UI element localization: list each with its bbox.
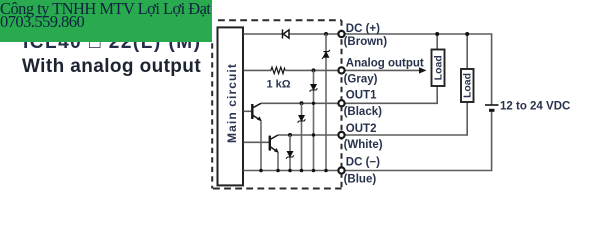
heading: With analog output [22, 56, 201, 78]
wire OUT1 external up to Load1 [345, 86, 437, 103]
vertical wire: analog zener column [313, 70, 315, 170]
svg-text:DC (−): DC (−) [346, 157, 380, 169]
svg-text:OUT2: OUT2 [346, 123, 377, 135]
junction node OUT2 / analog column crossing [312, 133, 315, 136]
load resistor Load1 [432, 50, 445, 87]
vertical wire: OUT1 zener column [301, 103, 303, 170]
resistor R1 1 kOhm zigzag [271, 67, 285, 73]
transistor Q1 emitter vertical wire [260, 121, 262, 171]
wire DC- internal [244, 170, 339, 172]
green company overlay box [0, 0, 212, 42]
wire DC+ external [345, 34, 492, 105]
terminal OUT1 [338, 100, 344, 106]
zener diode ZD4 (OUT2) [286, 152, 294, 159]
transistor Q2 (NPN, OUT2) [270, 135, 279, 153]
vertical wire: DC+ protection zener column [325, 34, 327, 171]
svg-text:(Brown): (Brown) [344, 36, 388, 48]
svg-text:12 to 24 VDC: 12 to 24 VDC [500, 100, 570, 112]
Load1 top connector [436, 34, 438, 50]
junction node OUT1 / analog column crossing [312, 102, 315, 105]
svg-text:Load: Load [433, 55, 445, 80]
svg-text:1 kΩ: 1 kΩ [267, 79, 291, 91]
transistor Q2 base wire [244, 141, 270, 143]
wire OUT2 external up to Load2 [345, 102, 467, 135]
zener diode ZD3 (OUT1) [298, 116, 306, 123]
junction node OUT1 / zener column [300, 101, 304, 105]
vertical wire: OUT2 zener column [289, 135, 291, 171]
DC source battery plates [485, 105, 499, 110]
heading model number line (partially covered by green box) [23, 32, 201, 54]
junction node on DC+ at zener column [324, 32, 328, 36]
zener diode ZD2 (analog) [310, 85, 318, 92]
dashed sensor enclosure box: left edge [211, 43, 213, 188]
junction node DC+/Load2 [465, 32, 469, 36]
svg-text:Main circuit: Main circuit [225, 63, 239, 143]
svg-text:OUT1: OUT1 [346, 90, 377, 102]
svg-text:(Black): (Black) [344, 106, 383, 118]
junction node OUT2 / zener column [288, 133, 292, 137]
terminal analog output [338, 67, 344, 73]
terminal DC- [338, 167, 344, 173]
diode D1 on DC+ line [283, 29, 290, 38]
zener diode ZD1 (supply) [322, 50, 330, 59]
svg-text:DC (+): DC (+) [346, 23, 380, 35]
wire analog output external with arrow [345, 69, 421, 71]
main circuit block U1 [218, 27, 244, 185]
transistor Q1 (NPN, OUT1) [252, 103, 261, 121]
wire OUT1 internal [261, 102, 338, 104]
junction node DC+/Load1 [435, 32, 439, 36]
wire DC+ internal [244, 33, 339, 35]
junction node on analog line [312, 68, 316, 72]
arrowhead analog output [419, 67, 427, 73]
svg-text:(White): (White) [344, 139, 383, 151]
Load2 top connector [466, 34, 468, 69]
dashed sensor enclosure box: bottom edge [213, 188, 342, 190]
terminal OUT2 [338, 132, 344, 138]
wire analog output internal (left of resistor) [244, 69, 272, 71]
svg-text:Load: Load [462, 73, 474, 98]
dashed sensor enclosure box: right edge [341, 20, 343, 188]
dashed sensor enclosure box: top edge [218, 19, 342, 21]
junction nodes on DC- bus [259, 169, 328, 173]
svg-text:(Blue): (Blue) [344, 173, 377, 185]
svg-text:Analog output: Analog output [346, 58, 424, 70]
wire DC- external with source riser [345, 111, 492, 171]
load resistor Load2 [461, 69, 474, 102]
terminal DC+ [338, 31, 344, 37]
wire OUT2 internal [278, 134, 338, 136]
svg-text:(Gray): (Gray) [344, 74, 378, 86]
transistor Q2 emitter vertical wire [277, 152, 279, 170]
transistor Q1 base wire [244, 110, 253, 112]
wire analog output internal (right of resistor) [286, 69, 339, 71]
